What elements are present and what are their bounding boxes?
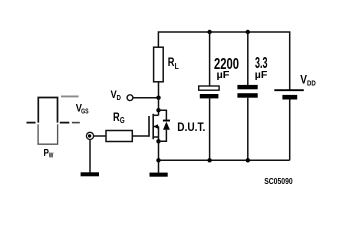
channel bar (152, 114, 154, 139)
top rail wire with V_DD branch (158, 32, 289, 90)
drain stub (153, 114, 158, 116)
svg-text:D: D (117, 93, 122, 102)
svg-text:GS: GS (81, 107, 89, 116)
node V_D terminal circle (127, 95, 133, 101)
body diode of D.U.T. (159, 110, 171, 141)
svg-text:G: G (120, 116, 125, 125)
ground (generator) (81, 172, 99, 176)
label R_G (113, 112, 125, 125)
battery V_DD (274, 90, 304, 99)
label V_DD (300, 74, 316, 87)
node bottom rail dot (3.3uF branch) (246, 158, 250, 162)
capacitor 3.3uF (237, 85, 257, 98)
ground (D.U.T. source) (150, 173, 168, 177)
svg-text:L: L (175, 62, 179, 71)
wire R_L bottom to drain node (158, 82, 160, 110)
label V_GS (76, 102, 89, 115)
node bottom rail junction dot (156, 158, 160, 162)
generator terminal circle (86, 132, 93, 139)
body stub with arrow (153, 126, 158, 128)
waveform baseline dash right 1 (60, 122, 70, 124)
wire battery lower (289, 100, 291, 161)
source vertical (158, 127, 160, 142)
node V_D junction dot (156, 96, 160, 100)
svg-text:DD: DD (307, 78, 316, 87)
value label 2200 uF (214, 56, 239, 81)
wire R_G to gate (132, 135, 149, 137)
wire generator down to ground (89, 140, 91, 173)
node drain junction dot (156, 108, 160, 112)
node top rail dot (3.3uF branch) (246, 30, 250, 34)
gate bar (148, 116, 150, 137)
svg-text:µF: µF (217, 69, 231, 81)
capacitor 2200uF (electrolytic) (199, 86, 219, 98)
bottom rail wire (159, 159, 290, 161)
svg-text:µF: µF (255, 69, 268, 81)
svg-text:D.U.T.: D.U.T. (177, 120, 205, 134)
drain vertical (158, 109, 160, 115)
wire source to ground (158, 141, 160, 173)
node top rail dot (2200uF branch) (207, 30, 211, 34)
wire generator to R_G (94, 135, 106, 137)
node source junction dot (156, 139, 160, 143)
resistor R_L (154, 47, 164, 82)
transistor D.U.T. (power MOSFET) (149, 109, 159, 141)
wire 2200uF branch lower (209, 98, 211, 160)
wire 3.3uF branch upper (247, 32, 249, 85)
resistor R_G (106, 131, 132, 142)
wire 3.3uF branch lower (247, 98, 249, 161)
label R_L (168, 57, 179, 71)
wire V_D terminal to drain (133, 97, 159, 99)
pulse width bracket (lower rectangle) (38, 124, 58, 144)
waveform pulse V_GS (38, 98, 57, 123)
node bottom rail dot (2200uF branch) (207, 158, 211, 162)
waveform baseline dash left (27, 122, 36, 124)
source stub (153, 136, 158, 138)
waveform baseline dash right 2 (72, 122, 80, 124)
svg-text:W: W (49, 153, 54, 160)
label P_W (44, 147, 54, 160)
label V_D (111, 89, 122, 102)
value label 3.3 uF (255, 55, 268, 81)
svg-text:SC05090: SC05090 (264, 177, 293, 186)
waveform top level gray dash (61, 95, 79, 97)
wire 2200uF branch upper (209, 32, 211, 86)
